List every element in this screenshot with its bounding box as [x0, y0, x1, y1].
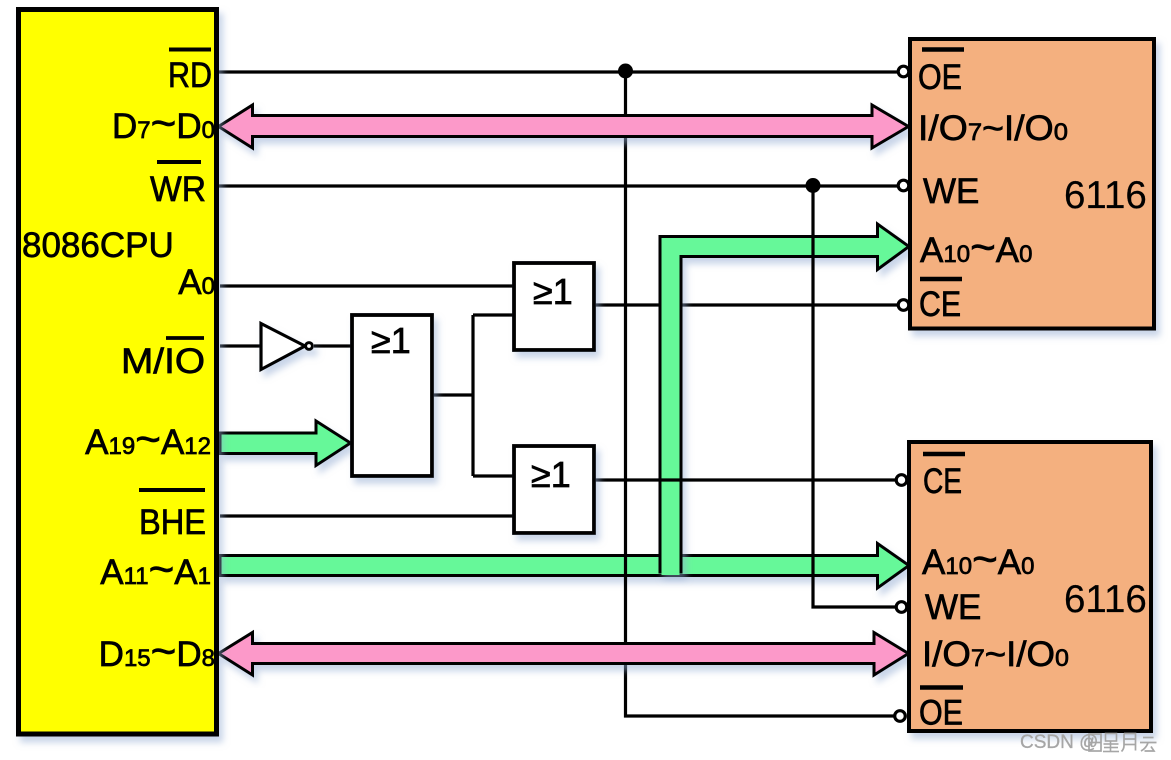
wire WR vertical run: [813, 186, 897, 607]
bottom 6116 pin circle CE: [896, 475, 907, 486]
svg-text:A10~A0: A10~A0: [922, 535, 1034, 584]
wire RD horizontal: [219, 70, 898, 73]
svg-text:≥1: ≥1: [533, 271, 573, 312]
watermark glyph yue: [1122, 734, 1136, 752]
svg-text:CE: CE: [919, 285, 961, 324]
wire inverter to OR1: [314, 344, 352, 347]
wire BHE: [220, 514, 514, 517]
svg-text:BHE: BHE: [139, 503, 206, 542]
OR gate U2 (top right): [514, 263, 594, 350]
memory chip 6116 top box: [910, 39, 1154, 329]
svg-text:OE: OE: [919, 694, 963, 733]
junction dot on RD line: [618, 64, 633, 79]
wire to OR2 input: [473, 313, 514, 316]
svg-text:≥1: ≥1: [371, 320, 411, 361]
OR gate U1 (middle): [352, 315, 432, 476]
svg-text:I/O7~I/O0: I/O7~I/O0: [918, 109, 1068, 148]
svg-text:M/IO: M/IO: [121, 342, 205, 381]
memory chip 6116 bottom box: [909, 442, 1151, 731]
svg-text:CSDN @: CSDN @: [1020, 732, 1098, 753]
watermark glyph ri: [1089, 734, 1101, 751]
wire OR2 output to CE of top 6116: [594, 303, 898, 306]
top 6116 pin circle CE: [898, 300, 909, 311]
bus branch green elbow arrow to A10~A0 of top 6116: [660, 224, 909, 572]
wire A0: [220, 284, 514, 287]
watermark glyph xing: [1103, 734, 1119, 752]
bottom 6116 pin circle WE: [896, 602, 907, 613]
bus A19~A12 green arrow into OR1: [220, 421, 351, 466]
bus elbow green overlap patch: [662, 555, 680, 575]
bottom 6116 pin circle OE: [895, 711, 906, 722]
bus A11~A1 green arrow to bottom 6116: [220, 544, 909, 589]
svg-text:WE: WE: [923, 172, 979, 211]
wire WR horizontal: [219, 184, 898, 187]
junction dot on WR line: [806, 178, 821, 193]
svg-text:I/O7~I/O0: I/O7~I/O0: [922, 635, 1069, 674]
watermark glyph yun: [1140, 738, 1157, 752]
wire OR1 output split vertical: [471, 315, 474, 476]
svg-text:CE: CE: [923, 462, 962, 501]
svg-text:6116: 6116: [1064, 174, 1147, 217]
svg-text:6116: 6116: [1064, 578, 1147, 621]
wire to OR3 input: [473, 474, 514, 477]
data bus D7~D0 pink double arrow: [219, 105, 909, 148]
top 6116 pin circle OE: [898, 66, 909, 77]
data bus D15~D8 pink double arrow: [219, 633, 909, 676]
svg-text:D7~D0: D7~D0: [112, 99, 215, 148]
wire OR3 output to CE of bottom 6116: [594, 478, 897, 481]
svg-text:OE: OE: [918, 58, 962, 97]
svg-text:8086CPU: 8086CPU: [22, 226, 174, 265]
wire RD vertical run: [626, 72, 896, 716]
svg-text:A11~A1: A11~A1: [100, 545, 211, 594]
svg-text:WR: WR: [150, 170, 206, 209]
wire OR1 output: [432, 393, 474, 396]
svg-text:A10~A0: A10~A0: [920, 223, 1032, 272]
svg-text:D15~D8: D15~D8: [99, 627, 215, 676]
wire M/IO to inverter: [220, 344, 261, 347]
inverter (NOT gate) on M/IO: [261, 324, 312, 370]
svg-text:WE: WE: [925, 588, 981, 627]
top 6116 pin circle WE: [898, 180, 909, 191]
OR gate U3 (bottom right): [514, 446, 594, 533]
svg-text:≥1: ≥1: [531, 454, 571, 495]
8086 CPU box: [19, 10, 217, 735]
svg-text:RD: RD: [168, 56, 212, 95]
